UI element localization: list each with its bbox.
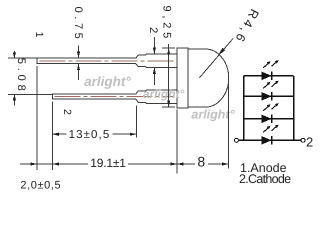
dim 8 arrows (177, 162, 229, 165)
svg-text:19.1±1: 19.1±1 (90, 156, 126, 170)
wire rung 1 (244, 75, 294, 77)
lead pin 1 (anode) outline (37, 54, 177, 67)
radius R4,6 leader (199, 39, 233, 79)
wire rung 3 (244, 118, 294, 120)
wire left rail (243, 76, 245, 141)
svg-text:2,0±0,5: 2,0±0,5 (20, 180, 61, 192)
dim 5.08 dimension line (13, 51, 15, 106)
dim 9,25 arrows (167, 48, 170, 107)
terminal node 2 (cathode) (301, 138, 305, 142)
extension line flange face (176, 110, 178, 174)
wire right rail (293, 76, 295, 141)
LED D2 (262, 92, 273, 101)
dim 8 dimension line (177, 163, 229, 165)
LED D4 (262, 136, 273, 145)
LED D3 light arrows (263, 105, 276, 111)
dim 13±0,5 arrows (52, 133, 136, 136)
dim 19.1±1 dimension line (52, 163, 177, 165)
dim 2 arrows (153, 48, 156, 74)
extension line from pin2 tip (51, 102, 53, 171)
watermark arlight 1 (84, 74, 131, 89)
dim 9,25 dimension line (168, 44, 170, 107)
radius R4,6 arrowhead (218, 48, 225, 56)
lead pin 2 (cathode) outline (52, 90, 177, 104)
LED D2 light arrows (263, 83, 276, 89)
svg-text:0.75: 0.75 (72, 7, 84, 43)
dim 0.75 leader lines (78, 46, 80, 81)
LED body flange (177, 48, 188, 108)
svg-text:9,25: 9,25 (161, 5, 173, 42)
pin 1 centerline (40, 60, 175, 62)
LED body cylinder and dome (188, 49, 229, 107)
svg-text:arlight°: arlight° (143, 87, 185, 101)
svg-text:2: 2 (147, 27, 159, 33)
svg-text:13±0,5: 13±0,5 (69, 129, 111, 141)
dim 13±0,5 dimension line (52, 133, 136, 135)
watermark arlight 3 (191, 107, 235, 121)
extension line from pin1 tip (36, 66, 38, 170)
watermark arlight 2 (143, 87, 185, 101)
extension line dome tip (228, 80, 230, 169)
svg-text:arlight°: arlight° (84, 74, 131, 89)
svg-text:2: 2 (306, 134, 313, 149)
dim 5.08 arrows (13, 52, 16, 100)
dim 2,0±0,5 arrow (31, 162, 38, 165)
dim 2,0±0,5 line with outside arrows (20, 163, 52, 165)
svg-text:8: 8 (197, 154, 205, 170)
pin 2 centerline (55, 96, 175, 98)
schematic wires (239, 76, 302, 141)
dim 5.08 extension ticks (8, 58, 52, 94)
svg-text:2: 2 (61, 109, 73, 115)
dim 2 lead thickness lines (153, 37, 155, 85)
extension line lead step (136, 106, 138, 138)
dim 19.1±1 arrows (52, 162, 177, 165)
LED D1 light arrows (263, 62, 276, 68)
dim 0.75 arrows (77, 52, 80, 71)
svg-text:2.Cathode: 2.Cathode (239, 172, 291, 186)
svg-text:5.08: 5.08 (15, 58, 27, 95)
wire rung 2 (244, 95, 294, 97)
dim 9,25 extension ticks (162, 48, 175, 107)
svg-text:1: 1 (33, 32, 45, 38)
LED D1 (262, 72, 273, 81)
LED D3 (262, 115, 273, 124)
LED D4 light arrows (263, 127, 276, 132)
wire rung 4 (239, 139, 302, 141)
terminal node 1 (anode) (234, 138, 238, 142)
